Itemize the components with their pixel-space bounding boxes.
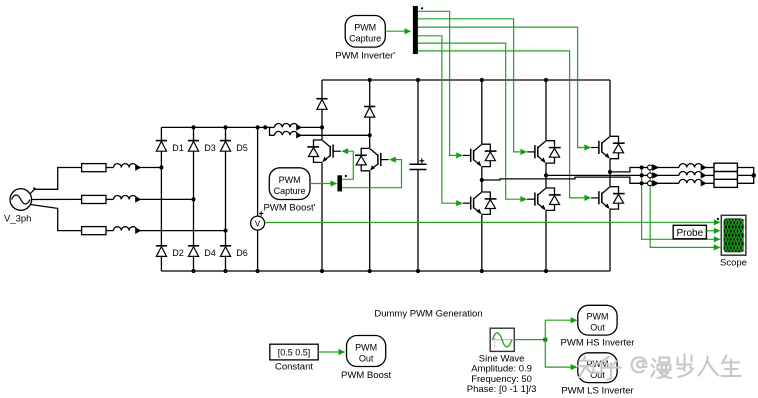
svg-text:Out: Out: [590, 322, 605, 332]
svg-text:PWM LS Inverter: PWM LS Inverter: [561, 386, 633, 397]
IGBT boost Q1 (mirrored, gate right): [307, 140, 341, 162]
node tap W: [640, 165, 644, 169]
PWM Out block (HS inverter): [578, 305, 617, 335]
wire L1 to leg: [302, 126, 323, 128]
boost leg 2: [369, 80, 371, 107]
wire U to load coil: [657, 182, 679, 184]
svg-text:D3: D3: [204, 143, 216, 153]
watermark char 步: [677, 355, 693, 378]
watermark char 人: [699, 357, 719, 376]
svg-text:PWM: PWM: [587, 311, 609, 321]
boost leg 1: [321, 80, 323, 99]
wire V to bottom rail: [257, 230, 259, 271]
port dot: [717, 218, 719, 220]
wire gate LS leg3: [418, 51, 586, 198]
bridge leg 2 wire: [193, 127, 195, 140]
wire leg3 bottom: [609, 209, 611, 271]
svg-text:Probe: Probe: [676, 228, 703, 239]
load block (three-phase R): [714, 163, 737, 187]
wire step to boost inductor 2: [270, 127, 275, 135]
watermark char 知: [578, 357, 592, 378]
wire R to L phase A: [106, 167, 114, 169]
resistor R phase A: [82, 164, 106, 172]
IGBT U6 low side: [591, 187, 625, 209]
port dot: [421, 7, 423, 9]
diode boost D7: [316, 99, 327, 110]
IGBT U3 high side: [527, 141, 561, 163]
wire leg3 mid: [609, 159, 611, 187]
node sine split: [543, 338, 547, 342]
watermark @: [632, 357, 647, 372]
node phase B junction: [191, 197, 195, 201]
watermark char 漫: [652, 358, 672, 379]
PWM Capture block (inverter): [345, 16, 385, 48]
wire current tap 2 to scope input 4: [650, 168, 714, 248]
capacitor C1: [410, 158, 427, 169]
current measurement W: [642, 167, 648, 169]
wire leg1 mid: [481, 167, 483, 192]
source V_3ph: [10, 189, 32, 211]
svg-text:D5: D5: [236, 143, 248, 153]
diode D3: [188, 141, 199, 152]
resistor R phase C: [82, 227, 106, 235]
svg-text:PWM: PWM: [355, 342, 377, 352]
wire gate LS leg1: [418, 36, 457, 203]
wire gate LS leg2: [418, 43, 522, 199]
inductor L phase C: [114, 227, 141, 233]
watermark char 生: [722, 356, 741, 377]
wire demux to boost gate 1: [342, 151, 353, 179]
wire Vdc measurement to scope input 1: [265, 221, 715, 223]
watermark char 乎: [602, 357, 621, 380]
wire A to bridge: [141, 167, 162, 169]
plus sign: [259, 211, 263, 215]
svg-text:Capture: Capture: [274, 186, 306, 196]
inductor load W: [679, 164, 706, 170]
wire probe to scope input 2: [706, 230, 714, 232]
port dot: [345, 175, 347, 177]
wire split to PWM HS: [545, 320, 571, 339]
wire phase C fanout: [31, 205, 82, 231]
svg-text:Scope: Scope: [720, 258, 747, 269]
watermark 知乎 @漫步人生 (hand drawn strokes): [578, 355, 741, 380]
inductor load U: [679, 179, 706, 185]
node star junction: [751, 173, 756, 178]
node phase C junction: [223, 229, 227, 233]
svg-text:D1: D1: [172, 143, 184, 153]
wire capture to demux: [385, 30, 405, 32]
Probe block: [673, 225, 706, 239]
IGBT U5 high side: [591, 136, 625, 158]
Scope block: [721, 215, 746, 255]
svg-text:D4: D4: [204, 248, 216, 258]
inductor L phase B: [114, 196, 141, 202]
diode D2: [156, 246, 167, 257]
svg-text:Constant: Constant: [275, 362, 313, 373]
current measurement V: [642, 174, 648, 176]
svg-text:PWM: PWM: [354, 23, 376, 33]
svg-text:PWM Boost': PWM Boost': [264, 203, 316, 214]
IGBT U4 low side: [527, 188, 561, 210]
PWM Out block (LS inverter): [578, 353, 617, 383]
wire leg1 bottom: [481, 214, 483, 271]
svg-text:V: V: [255, 219, 261, 228]
wire V to load coil: [657, 174, 679, 176]
PWM Capture block (boost): [269, 168, 310, 200]
inductor boost L2: [275, 131, 302, 137]
svg-text:Dummy PWM Generation: Dummy PWM Generation: [374, 309, 482, 320]
node tap V: [640, 173, 644, 177]
wire phase V output: [546, 174, 642, 176]
diode D5: [220, 141, 231, 152]
wire phase U output: [482, 177, 642, 183]
demux boost (mux bar): [337, 175, 342, 191]
inverter leg 3 wire top: [609, 80, 611, 136]
wire L2 to leg 2: [302, 134, 370, 136]
svg-text:Out: Out: [359, 353, 374, 363]
wire gate HS leg2: [418, 19, 522, 152]
svg-text:PWM HS Inverter: PWM HS Inverter: [561, 338, 635, 349]
top DC rail: [322, 79, 610, 81]
diode D1: [156, 141, 167, 152]
inverter leg 1 wire top: [481, 80, 483, 144]
wire gate HS leg1: [418, 11, 457, 155]
wire C to bridge: [141, 230, 226, 232]
resistor R phase B: [82, 195, 106, 203]
PWM Out block (boost): [347, 336, 386, 367]
IGBT boost Q2 (mirrored, gate right): [355, 148, 389, 170]
port dot: [33, 187, 35, 189]
IGBT U2 low side: [463, 192, 497, 214]
wire phase B: [32, 198, 82, 200]
wire constant to PWM Out: [318, 351, 339, 353]
node tap U: [640, 181, 644, 185]
wire V tap vertical: [257, 127, 259, 216]
voltage measurement V: [251, 216, 265, 230]
wire current tap 1 to scope input 3: [642, 168, 715, 240]
svg-text:[0.5 0.5]: [0.5 0.5]: [278, 348, 311, 358]
wire leg2 mid: [545, 163, 547, 188]
diode D4: [188, 246, 199, 257]
capacitor C1 leg: [417, 80, 419, 164]
bridge leg 3 wire: [225, 127, 227, 140]
wire sine to split: [514, 339, 545, 341]
svg-text:D6: D6: [236, 248, 248, 258]
svg-text:Phase: [0 -1 1]/3: Phase: [0 -1 1]/3: [467, 384, 537, 395]
diode D6: [220, 246, 231, 257]
wire leg2 bottom: [545, 210, 547, 271]
demux inverter (mux bar): [413, 6, 418, 54]
inverter leg 2 wire top: [545, 80, 547, 141]
node phase A junction: [159, 165, 163, 169]
wire R to L phase B: [106, 198, 114, 200]
wire phase W output: [610, 168, 642, 172]
bridge top rail: [161, 126, 265, 128]
wire B to bridge: [141, 198, 194, 200]
bottom DC rail: [161, 270, 610, 272]
wire gate HS leg3: [418, 27, 586, 147]
inductor L phase A: [114, 164, 141, 170]
wire PWM Capture to demux: [310, 183, 332, 185]
wire R to L phase C: [106, 230, 114, 232]
diode boost D8: [364, 107, 375, 118]
wire star point: [737, 168, 753, 184]
wire phase A fanout: [31, 168, 82, 194]
svg-text:D2: D2: [172, 248, 184, 258]
wire split to PWM LS: [545, 340, 571, 368]
svg-text:PWM Boost: PWM Boost: [341, 370, 392, 381]
svg-text:Capture: Capture: [349, 34, 381, 44]
bridge leg 1 wire: [160, 127, 162, 140]
wire to boost inductor 1: [265, 126, 274, 128]
Constant block: [270, 344, 318, 360]
IGBT U1 high side: [463, 144, 497, 166]
inductor load V: [679, 172, 706, 178]
svg-text:PWM Inverter': PWM Inverter': [335, 51, 395, 62]
svg-text:V_3ph: V_3ph: [4, 214, 31, 225]
inductor boost L1: [275, 124, 302, 130]
current measurement U: [642, 182, 648, 184]
svg-text:PWM: PWM: [279, 175, 301, 185]
wire W to load coil: [657, 167, 679, 169]
node boost split junction: [263, 125, 267, 129]
Sine Wave block: [490, 328, 514, 351]
node V tap junction: [256, 125, 260, 129]
wire demux to boost gate 2: [342, 160, 402, 188]
